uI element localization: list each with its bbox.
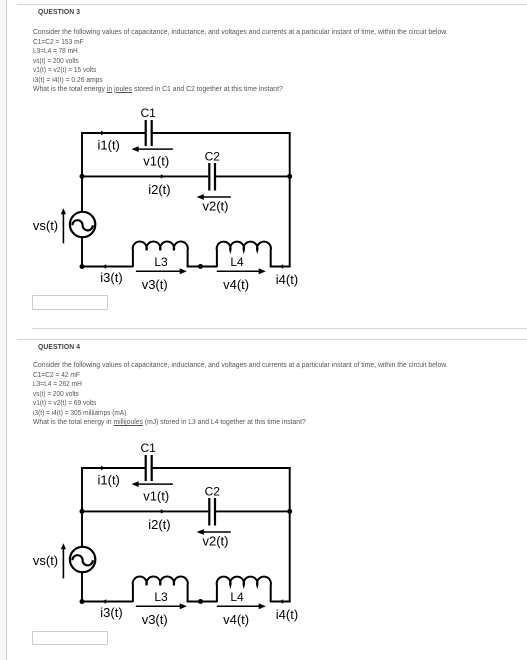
wire: bottom rail, between L3 and L4 (187, 266, 218, 268)
QUESTION 3 heading (38, 7, 80, 16)
svg-text:i1(t): i1(t) (98, 472, 120, 487)
node: junction middle rail / left branch (80, 174, 85, 179)
inductor L4 (217, 577, 271, 602)
capacitor C2 plates (209, 498, 215, 526)
svg-text:vs(t): vs(t) (33, 553, 58, 568)
inductor L3 (133, 577, 188, 602)
wire: top rail, left of C1 (81, 132, 146, 134)
wire: bottom rail, right of L4 (270, 601, 291, 603)
svg-text:C1: C1 (141, 441, 157, 455)
wire: middle rail, left of C2 (82, 175, 208, 177)
node: junction middle rail / right branch (287, 509, 292, 514)
svg-text:L4: L4 (230, 255, 244, 269)
svg-text:C2: C2 (205, 485, 221, 499)
voltage arrow v3 (pointing right, under L3) (136, 268, 187, 274)
circuit schematic for question 3 (28, 104, 310, 296)
wire: top rail, right of C1 (152, 132, 291, 134)
divider line before question 4 (17, 339, 527, 340)
wire: middle rail, left of C2 (82, 510, 208, 512)
svg-text:v2(t): v2(t) (203, 534, 229, 549)
current arrow i4 (on bottom rail, pointing left) (279, 264, 283, 268)
svg-text:C2: C2 (205, 150, 221, 164)
svg-text:v2(t): v2(t) (203, 199, 229, 214)
svg-text:v1(t): v1(t) (143, 489, 169, 504)
top horizontal divider (17, 4, 527, 5)
wire: right vertical branch (289, 132, 291, 267)
capacitor C1 plates (146, 120, 152, 146)
current arrow i1 (on top rail, pointing right) (101, 131, 105, 135)
question 4 body text (33, 360, 448, 369)
node: junction middle rail / right branch (287, 174, 292, 179)
node: junction bottom rail / left branch (80, 264, 85, 269)
voltage polarity arrow for vs (61, 543, 66, 578)
svg-text:i4(t): i4(t) (276, 607, 298, 622)
svg-text:i2(t): i2(t) (148, 517, 170, 532)
question 3 body text (33, 27, 448, 36)
current arrow i3 (on bottom rail, pointing left) (102, 264, 106, 268)
inductor L4 (217, 242, 271, 267)
svg-text:v1(t): v1(t) (143, 154, 169, 169)
wire: bottom rail, left of L3 (82, 266, 133, 268)
voltage source vs: circle with sine (70, 212, 95, 237)
voltage arrow v1 (pointing left, under C1) (132, 146, 173, 152)
QUESTION 4 heading (38, 342, 80, 351)
svg-text:i3(t): i3(t) (100, 605, 122, 620)
wire: right vertical branch (289, 467, 291, 602)
svg-text:i2(t): i2(t) (148, 182, 170, 197)
wire: bottom rail, between L3 and L4 (187, 601, 218, 603)
wire: middle rail, right of C2 (216, 175, 290, 177)
inductor L3 (133, 242, 188, 267)
wire: middle rail, right of C2 (216, 510, 290, 512)
svg-text:v4(t): v4(t) (223, 612, 249, 627)
voltage arrow v4 (pointing right, under L4) (217, 603, 266, 609)
svg-text:C1: C1 (141, 106, 157, 120)
voltage arrow v4 (pointing right, under L4) (217, 268, 266, 274)
voltage arrow v3 (pointing right, under L3) (136, 603, 187, 609)
current arrow i2 (on middle rail, pointing right) (161, 174, 165, 178)
svg-text:L3: L3 (154, 255, 168, 269)
wire: bottom rail, right of L4 (270, 266, 291, 268)
node: junction bottom rail / left branch (80, 599, 85, 604)
voltage source vs: circle with sine (70, 547, 95, 572)
svg-text:vs(t): vs(t) (33, 218, 58, 233)
svg-text:i4(t): i4(t) (276, 272, 298, 287)
left vertical divider line (6, 0, 7, 660)
svg-text:v3(t): v3(t) (142, 612, 168, 627)
capacitor C2 plates (209, 163, 215, 191)
wire: top rail, right of C1 (152, 467, 291, 469)
wire: left vertical branch, top rail to source (81, 467, 83, 547)
voltage arrow v1 (pointing left, under C1) (132, 481, 173, 487)
wire: top rail, left of C1 (81, 467, 146, 469)
node: junction between L3 and L4 (198, 264, 203, 269)
answer input box for question 3 (32, 295, 108, 310)
answer input box for question 4 (32, 631, 108, 646)
wire: left vertical branch, source to bottom rail (81, 237, 83, 267)
voltage polarity arrow for vs (61, 208, 66, 243)
voltage arrow v2 (pointing left, under C2) (197, 194, 231, 200)
divider above question 4 block (32, 328, 527, 329)
svg-text:i1(t): i1(t) (98, 137, 120, 152)
node: junction between L3 and L4 (198, 599, 203, 604)
wire: left vertical branch, source to bottom rail (81, 572, 83, 602)
node: junction middle rail / left branch (80, 509, 85, 514)
wire: left vertical branch, top rail to source (81, 132, 83, 212)
wire: bottom rail, left of L3 (82, 601, 133, 603)
circuit schematic for question 4 (28, 439, 310, 631)
svg-text:L4: L4 (230, 590, 244, 604)
capacitor C1 plates (146, 455, 152, 481)
voltage arrow v2 (pointing left, under C2) (197, 529, 231, 535)
svg-text:L3: L3 (154, 590, 168, 604)
current arrow i3 (on bottom rail, pointing left) (102, 599, 106, 603)
current arrow i2 (on middle rail, pointing right) (161, 509, 165, 513)
svg-text:i3(t): i3(t) (100, 270, 122, 285)
svg-text:v3(t): v3(t) (142, 277, 168, 292)
left page gutter strip (0, 0, 6, 660)
svg-text:v4(t): v4(t) (223, 277, 249, 292)
current arrow i4 (on bottom rail, pointing left) (279, 599, 283, 603)
current arrow i1 (on top rail, pointing right) (101, 466, 105, 470)
